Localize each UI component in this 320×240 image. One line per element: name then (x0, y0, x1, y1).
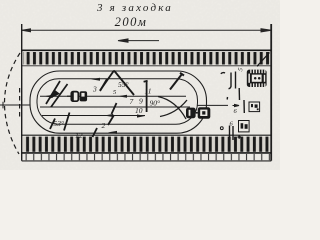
stroke near 3' (100, 79, 107, 91)
dashed inner vertical (19, 88, 21, 119)
right cluster small marks (220, 72, 244, 141)
path crossing at right end (158, 97, 186, 120)
left crossing strokes (46, 81, 68, 107)
left border line (21, 24, 23, 161)
outer loop contour (30, 71, 207, 133)
bar mid (238, 88, 240, 100)
stroke near 12 (93, 128, 98, 137)
right border line (270, 24, 272, 161)
bar pair lower (229, 126, 231, 140)
dimension line 200м (22, 29, 271, 32)
vertical position stroke (144, 81, 148, 112)
position stroke mid-bottom (112, 103, 117, 114)
bottom hatched band (22, 135, 272, 161)
top hatched band (22, 50, 272, 66)
dozer icon C top-right with cleats (247, 70, 267, 87)
small o (220, 127, 223, 130)
stroke near 2' (108, 115, 114, 125)
crossing V top-center 55deg (100, 71, 134, 96)
scraper icon A left (67, 91, 87, 101)
scan noise overlay (0, 0, 280, 170)
plus mark (238, 135, 242, 139)
box D (249, 102, 260, 112)
bar pair upper (229, 73, 232, 89)
box E (239, 121, 250, 132)
bottom-left V 53deg (50, 113, 70, 131)
squiggle tick (221, 73, 225, 74)
path chord lower (42, 115, 145, 117)
scraper icon B right (loaded) (186, 107, 210, 119)
axis left segment (0, 102, 30, 109)
axis right segment (197, 104, 239, 106)
thick stroke top-right (170, 73, 184, 90)
path chord upper (40, 95, 186, 97)
arrowheads on paths (44, 78, 145, 134)
inner loop contour (37, 79, 198, 124)
direction arrow under dimension (118, 39, 159, 42)
dashed arc previous cut (5, 53, 21, 154)
path chord middle (40, 106, 190, 108)
comma (226, 97, 228, 100)
